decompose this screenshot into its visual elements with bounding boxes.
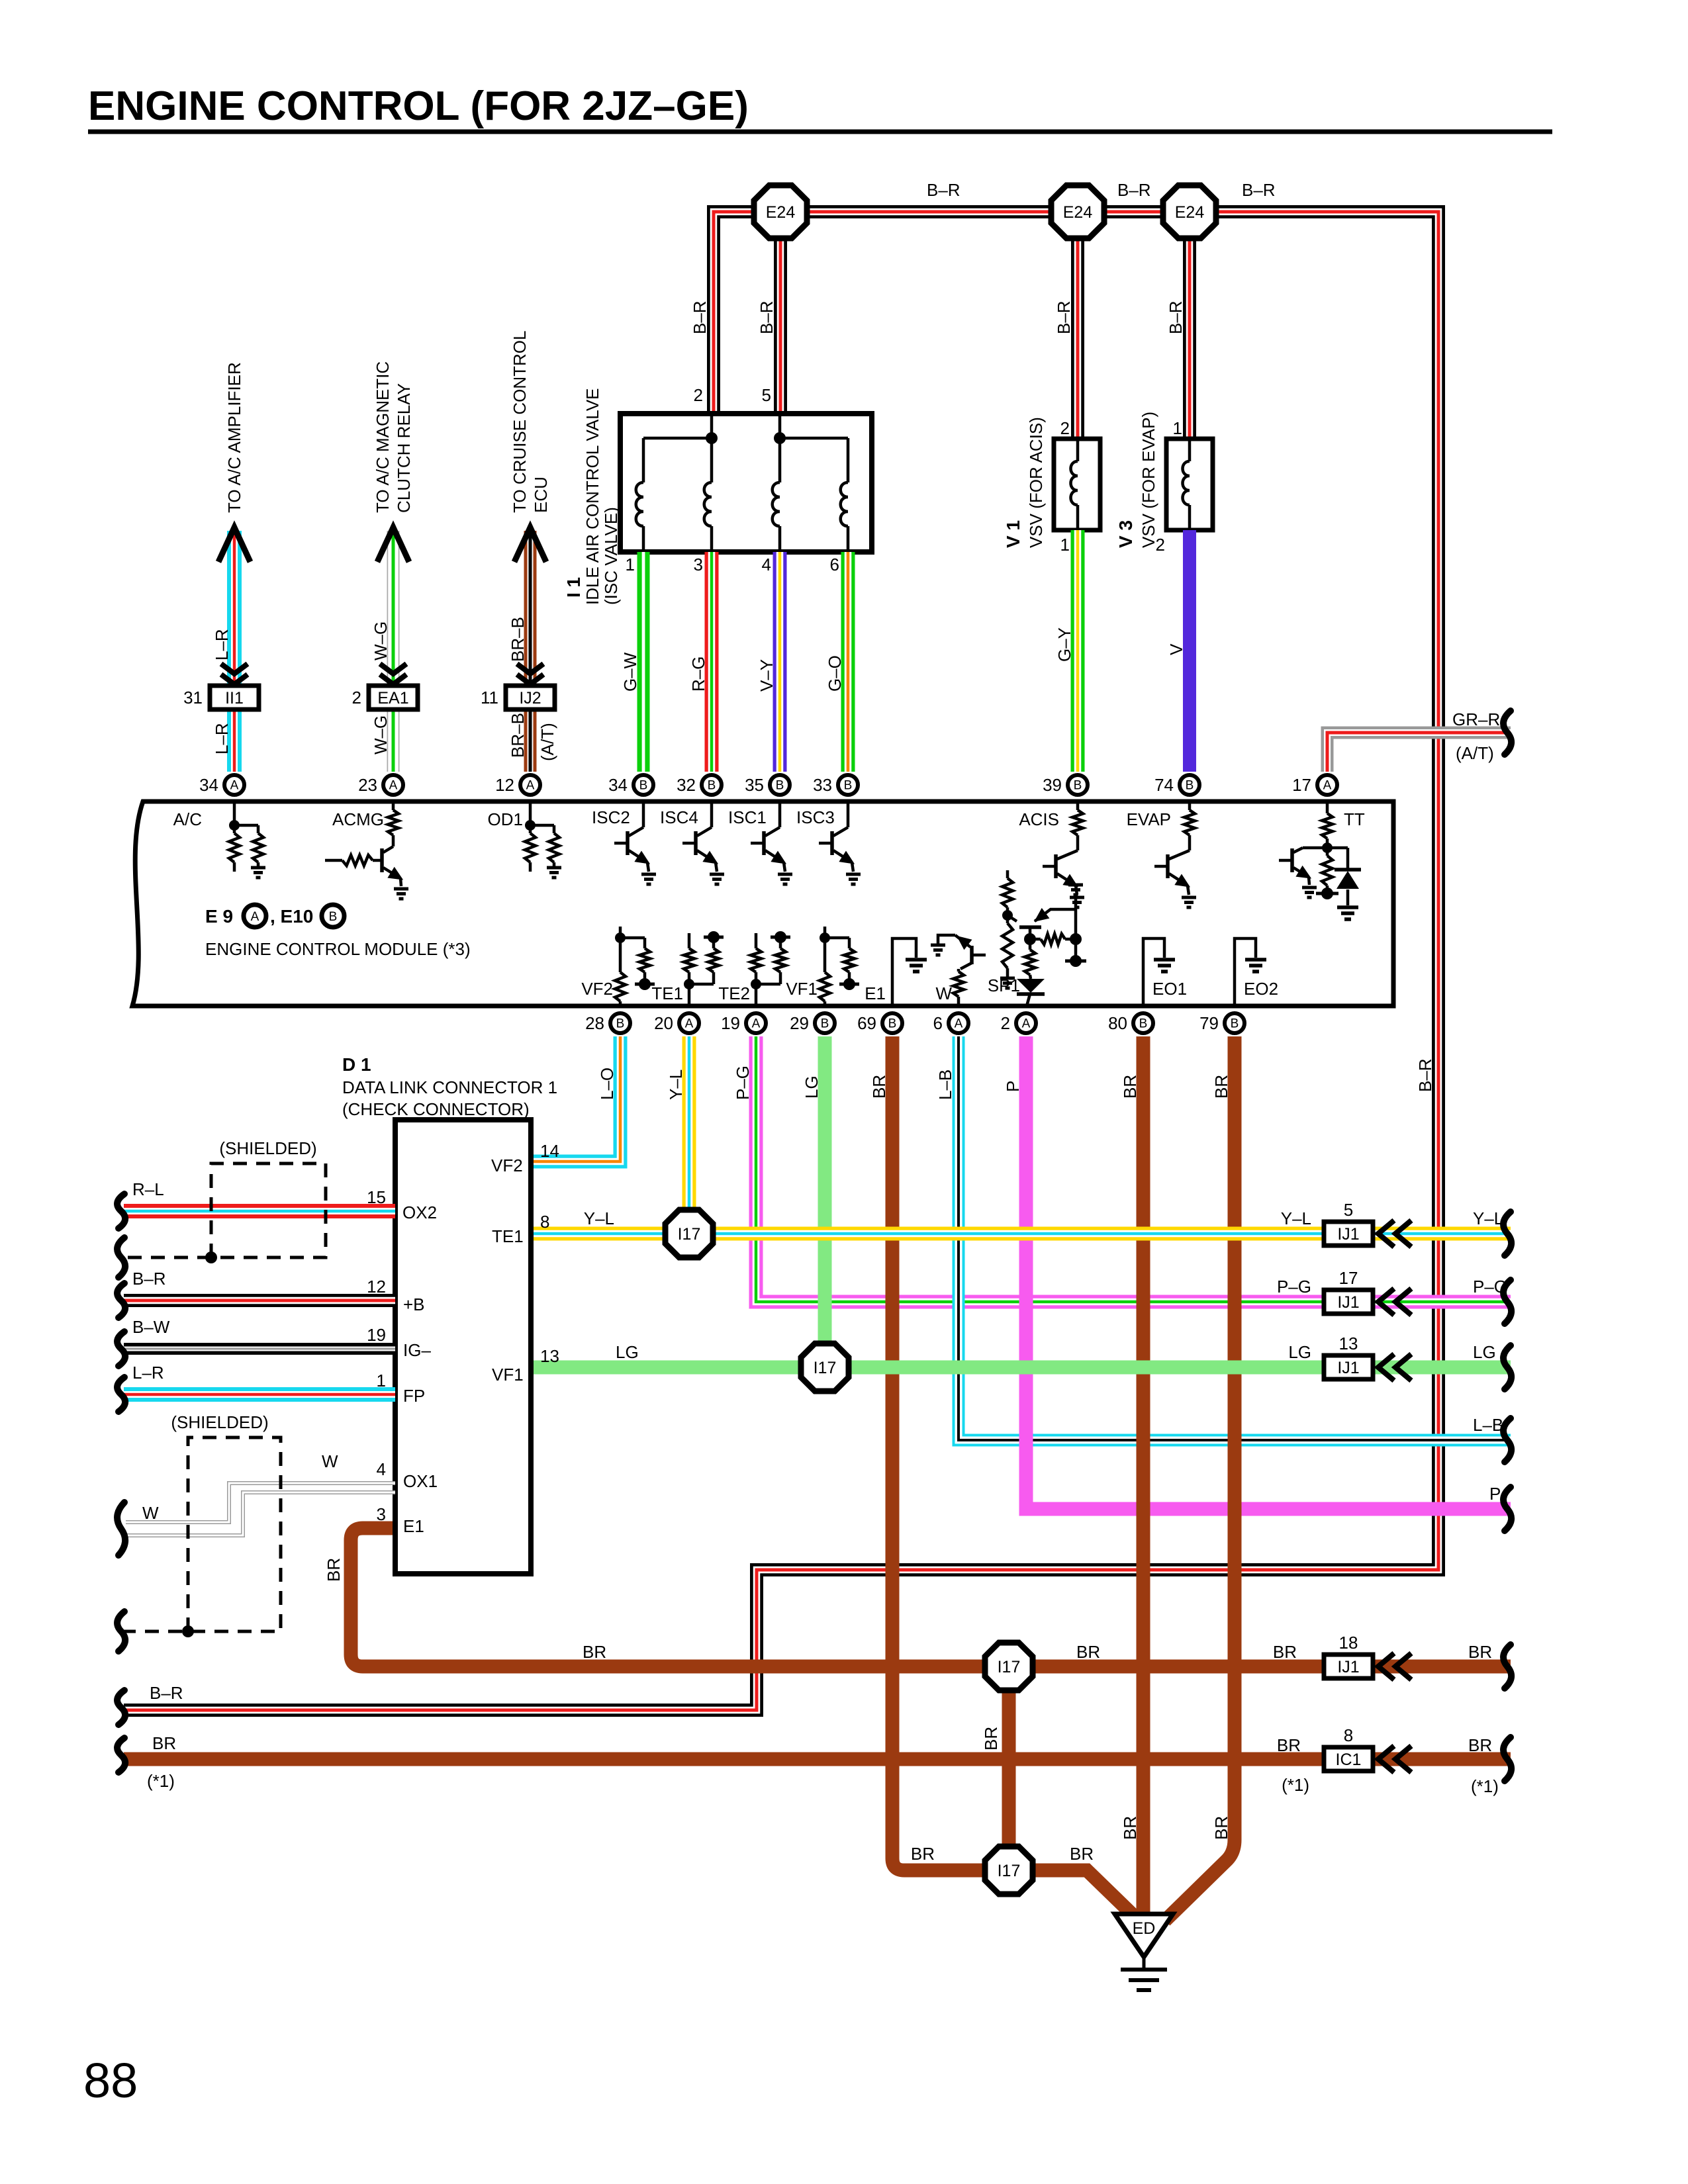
- svg-text:VF1: VF1: [492, 1365, 524, 1385]
- ECM ISC2 driver transistor: [642, 801, 645, 827]
- ECM ISC4 driver transistor: [710, 801, 714, 827]
- svg-text:BR: BR: [911, 1844, 935, 1864]
- svg-text:29: 29: [790, 1013, 809, 1033]
- junction dot pin5: [774, 432, 786, 444]
- svg-text:39: 39: [1043, 775, 1062, 795]
- wire BR (*1) row: [124, 1752, 1511, 1766]
- junction dot pin2: [706, 432, 718, 444]
- svg-text:I17: I17: [998, 1862, 1021, 1880]
- ECM pin 79 B: [1225, 1013, 1244, 1033]
- svg-text:R–L: R–L: [132, 1179, 164, 1199]
- svg-text:VSV (FOR ACIS): VSV (FOR ACIS): [1026, 417, 1046, 548]
- svg-text:IG–: IG–: [403, 1340, 431, 1360]
- wire G-W ISC pin1: [637, 552, 650, 772]
- svg-text:E24: E24: [1063, 203, 1093, 222]
- svg-text:B–R: B–R: [1242, 180, 1276, 200]
- ECM pin 6 A: [949, 1013, 968, 1033]
- brace wire continuation left y=1965: [117, 1283, 125, 1318]
- svg-text:B–R: B–R: [1415, 1058, 1435, 1092]
- ECM A/C input resistors: [233, 801, 236, 825]
- connector IC1 row y=2658: [1324, 1747, 1373, 1771]
- title underline: [88, 130, 1552, 134]
- idle air control valve box I1: [620, 414, 872, 552]
- svg-text:(CHECK CONNECTOR): (CHECK CONNECTOR): [342, 1099, 530, 1119]
- svg-text:23: 23: [358, 775, 377, 795]
- svg-text:G–Y: G–Y: [1055, 627, 1074, 662]
- svg-text:35: 35: [745, 775, 764, 795]
- svg-text:VF1: VF1: [786, 979, 818, 999]
- shield junction dot 2: [182, 1625, 194, 1637]
- svg-text:E 9: E 9: [205, 906, 233, 927]
- ISC coil at x=972: [642, 438, 645, 482]
- svg-text:V 3: V 3: [1115, 520, 1136, 548]
- svg-text:(*1): (*1): [1282, 1775, 1309, 1795]
- svg-text:TO A/C MAGNETIC: TO A/C MAGNETIC: [373, 361, 393, 513]
- connector IJ1 row y=1967: [1324, 1290, 1373, 1314]
- wire L-R to FP: [124, 1387, 395, 1402]
- wire L-O from VF2 pin 28 to D1: [531, 1036, 620, 1161]
- svg-text:B: B: [776, 779, 784, 793]
- brace GR-R: [1503, 711, 1511, 754]
- svg-text:4: 4: [377, 1459, 386, 1479]
- ECM TE2 resistor network: [755, 984, 758, 1006]
- ECM VF2 resistor network: [619, 927, 622, 938]
- svg-text:(*1): (*1): [1471, 1776, 1499, 1796]
- svg-text:(*1): (*1): [147, 1771, 175, 1791]
- ECM pin 2 A: [1016, 1013, 1036, 1033]
- svg-text:BR: BR: [1120, 1075, 1140, 1099]
- svg-text:IJ1: IJ1: [1337, 1293, 1359, 1312]
- wire B-R to +B: [124, 1294, 395, 1307]
- wire Y-L from TE1 pin 20 down: [682, 1036, 696, 1234]
- I17 junction upper: [985, 1643, 1033, 1690]
- svg-text:6: 6: [933, 1013, 943, 1033]
- svg-text:VF2: VF2: [491, 1156, 523, 1175]
- wire W-G to A/C magnetic clutch relay: [387, 531, 400, 772]
- ECM VF1 resistor network: [823, 927, 827, 938]
- ECM pin 19 A: [746, 1013, 766, 1033]
- svg-text:TT: TT: [1344, 809, 1365, 829]
- svg-text:17: 17: [1339, 1268, 1358, 1288]
- svg-text:EO1: EO1: [1152, 979, 1187, 999]
- ECM pin 29 B: [815, 1013, 835, 1033]
- svg-text:A: A: [752, 1017, 761, 1031]
- svg-text:2: 2: [352, 688, 361, 707]
- ECM pin 28 B: [610, 1013, 630, 1033]
- svg-text:TO CRUISE CONTROL: TO CRUISE CONTROL: [510, 331, 530, 513]
- VSV V1 (for ACIS) box: [1054, 439, 1100, 530]
- brace right y=2066: [1503, 1345, 1511, 1389]
- svg-text:BR: BR: [869, 1075, 889, 1099]
- wire L-R to A/C amplifier: [227, 531, 242, 772]
- svg-text:L–R: L–R: [132, 1363, 164, 1383]
- ECM pin 32 B: [702, 775, 722, 795]
- ECM pin 33 B: [838, 775, 858, 795]
- connector E24 at x=1628: [1051, 185, 1104, 238]
- wire V VSV V3 to EVAP: [1183, 530, 1196, 772]
- double chevron down at x=354: [221, 664, 248, 674]
- brace right y=1967: [1503, 1280, 1511, 1324]
- svg-text:15: 15: [367, 1187, 386, 1207]
- svg-text:W: W: [142, 1503, 159, 1523]
- svg-text:31: 31: [183, 688, 203, 707]
- ECM pin 34 A: [224, 775, 244, 795]
- svg-text:8: 8: [540, 1212, 549, 1232]
- svg-text:LG: LG: [802, 1075, 821, 1099]
- wire B-W to IG-: [124, 1343, 395, 1355]
- I17 junction lower: [985, 1846, 1033, 1894]
- svg-text:LG: LG: [616, 1342, 639, 1362]
- svg-text:B: B: [844, 779, 853, 793]
- brace wire continuation left y=2652: [117, 1738, 125, 1772]
- svg-text:2: 2: [1001, 1013, 1010, 1033]
- svg-text:I17: I17: [814, 1359, 837, 1377]
- svg-text:EA1: EA1: [377, 689, 408, 707]
- svg-text:3: 3: [377, 1504, 386, 1524]
- svg-text:E1: E1: [865, 983, 886, 1003]
- wire B-R E24 drop to VSV V1: [1071, 212, 1084, 442]
- svg-text:W–G: W–G: [371, 621, 391, 660]
- svg-text:B–R: B–R: [1166, 300, 1186, 334]
- ECM EVAP driver transistor: [1188, 801, 1192, 810]
- svg-text:L–R: L–R: [212, 723, 232, 754]
- svg-text:ED: ED: [1133, 1919, 1156, 1938]
- svg-text:E24: E24: [1175, 203, 1205, 222]
- wire P from SP1 pin 2: [1026, 1036, 1511, 1509]
- connector E24 at x=1179: [754, 185, 807, 238]
- brace right y=1864: [1503, 1212, 1511, 1255]
- wire R-L to OX2: [124, 1204, 395, 1218]
- svg-text:2: 2: [694, 385, 703, 405]
- svg-text:+B: +B: [403, 1295, 425, 1314]
- svg-text:BR: BR: [1211, 1816, 1231, 1840]
- svg-text:VF2: VF2: [581, 979, 613, 999]
- svg-text:P–G: P–G: [1277, 1277, 1311, 1297]
- ECM E1 ground: [892, 938, 916, 1006]
- ECM pin 17 A: [1317, 775, 1337, 795]
- D1 data link connector box: [395, 1120, 531, 1574]
- svg-text:6: 6: [830, 555, 839, 574]
- svg-text:L–B: L–B: [935, 1069, 955, 1100]
- svg-text:IJ1: IJ1: [1337, 1359, 1359, 1377]
- svg-text:3: 3: [694, 555, 703, 574]
- svg-text:ENGINE CONTROL MODULE (*3): ENGINE CONTROL MODULE (*3): [205, 939, 471, 959]
- svg-text:1: 1: [377, 1371, 386, 1390]
- svg-text:II1: II1: [225, 689, 244, 707]
- wire G-O ISC pin6: [841, 552, 855, 772]
- ISC coil at x=1075: [710, 438, 714, 482]
- wire BR from EO2 pin 79 to ED: [1165, 1036, 1235, 1921]
- svg-text:R–G: R–G: [688, 657, 708, 692]
- ECM pin 69 B: [882, 1013, 902, 1033]
- svg-text:ISC3: ISC3: [796, 807, 835, 827]
- ECM pin 35 B: [770, 775, 790, 795]
- svg-text:BR: BR: [1468, 1735, 1492, 1755]
- svg-text:B: B: [1231, 1017, 1239, 1031]
- svg-text:2: 2: [1156, 535, 1165, 555]
- svg-text:B: B: [1139, 1017, 1148, 1031]
- svg-text:A: A: [685, 1017, 694, 1031]
- ECM pin 80 B: [1133, 1013, 1153, 1033]
- svg-text:B: B: [329, 910, 338, 924]
- ECM ACIS driver transistor: [1076, 801, 1080, 810]
- svg-text:BR: BR: [583, 1642, 606, 1662]
- svg-text:14: 14: [540, 1141, 559, 1161]
- svg-text:B–R: B–R: [150, 1683, 183, 1703]
- svg-text:BR: BR: [1273, 1642, 1297, 1662]
- wire L-B from W pin 6: [959, 1036, 1511, 1440]
- wire B-R trunk from E24 connectors down right side and bottom return: [124, 212, 1438, 1710]
- svg-text:W: W: [322, 1451, 338, 1471]
- svg-text:GR–R: GR–R: [1452, 709, 1500, 729]
- ECM ISC1 driver transistor: [778, 801, 782, 827]
- connector IJ1 row y=2066: [1324, 1355, 1373, 1379]
- wire BR between I17 junctions: [1002, 1666, 1016, 1870]
- brace wire continuation left y=2107: [117, 1377, 125, 1412]
- double chevron down at x=594: [380, 664, 406, 674]
- arrow up at x=354: [218, 527, 250, 562]
- wire B-R E24 drop to ISC pin 5: [774, 212, 787, 414]
- svg-text:B: B: [1074, 779, 1082, 793]
- svg-text:B–W: B–W: [132, 1317, 170, 1337]
- svg-text:A: A: [526, 779, 535, 793]
- engine control module box E9/E10: [132, 801, 1393, 1006]
- svg-text:ECU: ECU: [531, 477, 551, 513]
- svg-text:(A/T): (A/T): [1456, 743, 1494, 763]
- svg-text:BR: BR: [324, 1558, 344, 1582]
- svg-text:L–O: L–O: [597, 1068, 617, 1100]
- svg-text:TE2: TE2: [718, 983, 750, 1003]
- svg-text:B–R: B–R: [1054, 300, 1074, 334]
- wire B-R E24 drop to VSV V3: [1183, 212, 1196, 442]
- svg-text:CLUTCH RELAY: CLUTCH RELAY: [394, 383, 414, 513]
- brace right y=2658: [1503, 1737, 1511, 1781]
- connector E24 at x=1797: [1163, 185, 1216, 238]
- svg-text:IJ1: IJ1: [1337, 1225, 1359, 1244]
- ECM W driver transistor: [938, 935, 955, 944]
- svg-text:SP1: SP1: [988, 976, 1020, 995]
- ISC coil at x=1281: [847, 438, 850, 482]
- shield box around OX2 wire: [124, 1163, 326, 1257]
- brace wire continuation left y=2310: [117, 1502, 125, 1555]
- svg-text:5: 5: [762, 385, 771, 405]
- wire Y-L row from D1 TE1 through I17: [531, 1227, 1511, 1241]
- svg-text:FP: FP: [403, 1386, 425, 1406]
- connector IJ2: [506, 686, 555, 709]
- wire BR-B to cruise control ECU: [524, 531, 537, 772]
- svg-text:19: 19: [367, 1325, 386, 1345]
- SP1 diode: [1017, 979, 1045, 993]
- svg-text:W: W: [935, 983, 952, 1003]
- TT diode: [1335, 868, 1361, 872]
- svg-text:TE1: TE1: [492, 1226, 524, 1246]
- svg-text:11: 11: [481, 688, 498, 707]
- svg-text:IDLE AIR CONTROL VALVE: IDLE AIR CONTROL VALVE: [583, 388, 602, 605]
- svg-text:IC1: IC1: [1336, 1751, 1362, 1769]
- svg-text:1: 1: [626, 555, 635, 574]
- svg-text:I 1: I 1: [563, 577, 584, 598]
- wire W to OX1 upper: [126, 1483, 395, 1522]
- svg-text:V 1: V 1: [1003, 520, 1023, 548]
- svg-text:BR: BR: [1468, 1642, 1492, 1662]
- svg-text:28: 28: [585, 1013, 604, 1033]
- ECM SP1 circuit: [1006, 870, 1009, 878]
- svg-text:32: 32: [677, 775, 696, 795]
- svg-text:A: A: [230, 779, 239, 793]
- svg-text:Y–L: Y–L: [1281, 1208, 1311, 1228]
- svg-text:LG: LG: [1473, 1342, 1496, 1362]
- svg-text:B: B: [708, 779, 716, 793]
- svg-text:OX2: OX2: [402, 1203, 437, 1222]
- connector EA1: [369, 686, 418, 709]
- brace wire continuation left y=1900: [117, 1238, 125, 1277]
- svg-text:E24: E24: [766, 203, 796, 222]
- double chevron down at x=801: [517, 664, 543, 674]
- svg-text:ISC2: ISC2: [592, 807, 630, 827]
- ISC coil at x=1178: [778, 438, 782, 482]
- brace right y=2518: [1503, 1645, 1511, 1688]
- svg-text:69: 69: [857, 1013, 876, 1033]
- svg-text:(SHIELDED): (SHIELDED): [219, 1138, 316, 1158]
- ECM pin 12 A: [520, 775, 540, 795]
- svg-text:80: 80: [1108, 1013, 1127, 1033]
- svg-text:13: 13: [1339, 1334, 1358, 1353]
- svg-text:8: 8: [1344, 1725, 1353, 1745]
- svg-text:1: 1: [1060, 535, 1070, 555]
- svg-text:B–R: B–R: [1117, 180, 1151, 200]
- wire BR from E1 pin 69 down to I17: [892, 1036, 1009, 1870]
- svg-text:BR–B: BR–B: [508, 617, 528, 662]
- svg-text:P–G: P–G: [733, 1066, 753, 1100]
- arrow up at x=801: [514, 527, 546, 562]
- svg-text:BR–B: BR–B: [508, 713, 528, 758]
- svg-text:B–R: B–R: [757, 300, 776, 334]
- svg-text:(SHIELDED): (SHIELDED): [171, 1412, 268, 1432]
- wire R-G ISC pin3: [705, 552, 719, 772]
- svg-text:TO A/C AMPLIFIER: TO A/C AMPLIFIER: [224, 362, 244, 513]
- svg-text:V: V: [1166, 643, 1186, 655]
- connector II1: [210, 686, 259, 709]
- wire BR from D1 E1 to IJ1: [351, 1528, 1511, 1666]
- svg-text:G–W: G–W: [620, 652, 640, 692]
- svg-text:A: A: [251, 910, 259, 924]
- svg-text:B–R: B–R: [132, 1269, 166, 1289]
- svg-text:OD1: OD1: [488, 809, 523, 829]
- connector IJ1 row y=1864: [1324, 1222, 1373, 1246]
- svg-text:L–R: L–R: [212, 629, 232, 660]
- ECM ACMG driver transistor: [392, 801, 395, 810]
- svg-text:Y–L: Y–L: [666, 1069, 686, 1100]
- wire G-Y VSV V1 to ACIS: [1071, 530, 1085, 772]
- svg-text:BR: BR: [152, 1733, 176, 1753]
- ECM EO2 ground: [1235, 938, 1256, 1006]
- svg-text:, E10: , E10: [270, 906, 313, 927]
- svg-text:BR: BR: [1120, 1816, 1140, 1840]
- svg-text:BR: BR: [1070, 1844, 1094, 1864]
- svg-text:74: 74: [1154, 775, 1174, 795]
- svg-text:18: 18: [1339, 1633, 1358, 1653]
- svg-text:20: 20: [654, 1013, 673, 1033]
- svg-text:ISC4: ISC4: [660, 807, 698, 827]
- brace wire continuation left y=2038: [117, 1332, 125, 1366]
- wire LG from VF1 pin 29 down: [818, 1036, 832, 1367]
- svg-text:BR: BR: [1076, 1642, 1100, 1662]
- ECM pin 23 A: [383, 775, 403, 795]
- ECM pin 74 B: [1180, 775, 1199, 795]
- svg-text:A: A: [1323, 779, 1332, 793]
- svg-text:A: A: [955, 1017, 963, 1031]
- wire LG row from D1 VF1: [531, 1361, 1511, 1375]
- svg-text:EVAP: EVAP: [1127, 809, 1171, 829]
- svg-text:TE1: TE1: [651, 983, 683, 1003]
- ECM TT circuit: [1326, 801, 1329, 813]
- svg-text:A: A: [1022, 1017, 1031, 1031]
- svg-text:12: 12: [367, 1277, 386, 1297]
- svg-text:ACMG: ACMG: [332, 809, 384, 829]
- svg-text:34: 34: [608, 775, 628, 795]
- ECM TE1 resistor network: [688, 984, 691, 1006]
- svg-text:BR: BR: [1277, 1735, 1301, 1755]
- brace wire continuation left y=2580: [117, 1690, 125, 1725]
- svg-text:A/C: A/C: [173, 809, 202, 829]
- svg-text:ISC1: ISC1: [728, 807, 767, 827]
- svg-text:13: 13: [540, 1346, 559, 1366]
- svg-text:EO2: EO2: [1244, 979, 1278, 999]
- svg-text:ENGINE CONTROL (FOR 2JZ–GE): ENGINE CONTROL (FOR 2JZ–GE): [88, 83, 749, 129]
- svg-text:34: 34: [199, 775, 218, 795]
- svg-text:G–O: G–O: [825, 655, 845, 692]
- ECM ISC3 driver transistor: [847, 801, 850, 827]
- svg-text:2: 2: [1060, 418, 1070, 438]
- I17 junction on Y-L: [665, 1210, 713, 1257]
- ECM pin 20 A: [679, 1013, 699, 1033]
- svg-text:Y–L: Y–L: [1473, 1208, 1503, 1228]
- wire P-G from TE2 pin 19: [756, 1036, 1511, 1302]
- ISC internal top wires: [710, 414, 714, 438]
- svg-text:OX1: OX1: [403, 1471, 438, 1491]
- svg-text:VSV (FOR EVAP): VSV (FOR EVAP): [1139, 412, 1158, 548]
- ECM EO1 ground: [1143, 938, 1164, 1006]
- VSV V3 (for EVAP) box: [1166, 439, 1213, 530]
- wire BR from EO1 pin 80 to ED: [1137, 1036, 1150, 1919]
- brace wire continuation left y=2465: [117, 1612, 125, 1651]
- svg-text:P: P: [1489, 1484, 1501, 1504]
- ECM pin 39 B: [1068, 775, 1088, 795]
- svg-text:Y–L: Y–L: [584, 1208, 614, 1228]
- svg-text:B: B: [639, 779, 648, 793]
- I17 junction on LG: [801, 1343, 849, 1391]
- svg-text:BR: BR: [1211, 1075, 1231, 1099]
- svg-text:B–R: B–R: [927, 180, 961, 200]
- svg-text:B: B: [888, 1017, 897, 1031]
- svg-text:DATA LINK CONNECTOR 1: DATA LINK CONNECTOR 1: [342, 1077, 557, 1097]
- svg-text:P: P: [1003, 1081, 1023, 1092]
- svg-text:ACIS: ACIS: [1019, 809, 1059, 829]
- ED ground triangle: [1115, 1914, 1173, 1957]
- svg-text:B: B: [1186, 779, 1194, 793]
- svg-text:(ISC VALVE): (ISC VALVE): [601, 507, 621, 605]
- svg-text:33: 33: [813, 775, 832, 795]
- svg-text:IJ2: IJ2: [519, 689, 541, 707]
- svg-text:1: 1: [1173, 418, 1182, 438]
- shield box around OX1 wires: [124, 1437, 281, 1631]
- svg-text:19: 19: [721, 1013, 740, 1033]
- svg-text:79: 79: [1199, 1013, 1219, 1033]
- wire GR-R (A/T) to TT: [1327, 733, 1511, 772]
- svg-text:V–Y: V–Y: [757, 659, 776, 692]
- wire V-Y ISC pin4: [773, 552, 787, 772]
- svg-text:L–B: L–B: [1473, 1415, 1503, 1435]
